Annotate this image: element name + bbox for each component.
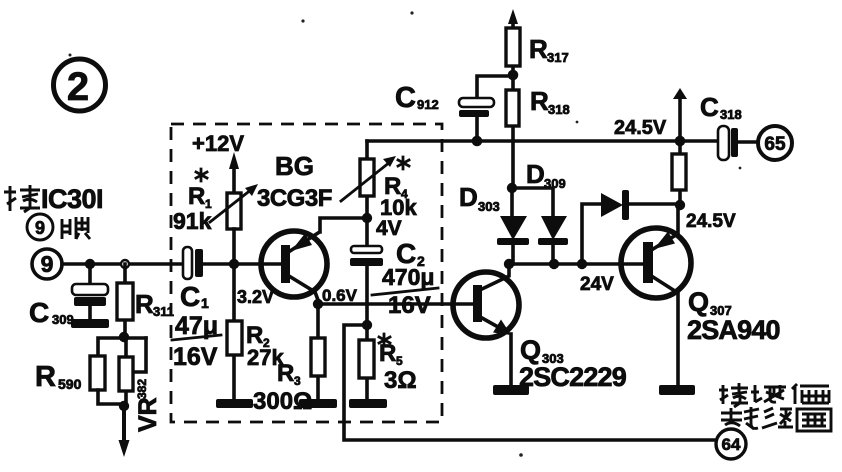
svg-text:4V: 4V: [376, 217, 402, 240]
ground R5: [349, 399, 387, 408]
svg-text:9: 9: [41, 251, 54, 277]
collector lead down-right: [289, 276, 318, 304]
svg-text:65: 65: [764, 134, 786, 155]
svg-text:16V: 16V: [173, 343, 218, 371]
label 接IC301: [4, 184, 103, 214]
wire diode branch up: [582, 204, 601, 264]
node at C309: [85, 259, 95, 269]
svg-text:91k: 91k: [173, 208, 212, 234]
svg-text:C: C: [700, 92, 719, 122]
svg-text:D: D: [459, 182, 478, 212]
node R311 bottom: [119, 332, 129, 342]
svg-text:590: 590: [58, 376, 82, 392]
wire parallel bottom: [98, 390, 124, 404]
svg-text:318: 318: [548, 102, 570, 117]
svg-text:R: R: [188, 183, 205, 210]
svg-text:R: R: [379, 340, 396, 367]
node BG collector: [313, 299, 323, 309]
node rail/C318: [675, 136, 686, 147]
label R4 10k 4V: [376, 173, 417, 240]
label 接场偏 (to field deflection) row1: [719, 383, 829, 407]
capacitor C1: [183, 247, 203, 279]
svg-text:R: R: [277, 360, 294, 387]
node diode top: [507, 183, 517, 193]
svg-text:R: R: [529, 34, 548, 64]
resistor R4 (variable): [341, 141, 396, 218]
transistor BG (PNP 3CG3F): [261, 218, 367, 304]
resistor unlabeled: [672, 141, 686, 205]
svg-text:BG: BG: [275, 151, 314, 181]
transistor Q303 (NPN 2SC2229): [453, 264, 519, 385]
wire parallel top: [98, 338, 146, 356]
label C318: [700, 92, 742, 122]
label R1 91k: [173, 183, 212, 234]
inner dashed box: [171, 124, 442, 422]
ground R3: [299, 399, 337, 408]
resistor R1 (variable): [210, 184, 258, 264]
label Q303 2SC2229: [519, 335, 627, 392]
svg-text:IC30I: IC30I: [41, 184, 103, 214]
label Q307 2SA940: [687, 287, 780, 345]
svg-text:3: 3: [294, 374, 301, 388]
svg-text:2SA940: 2SA940: [687, 315, 780, 345]
svg-text:VR: VR: [134, 397, 162, 432]
ground C309: [71, 319, 109, 328]
node C2/R5: [362, 320, 372, 330]
svg-text:Q: Q: [520, 335, 541, 365]
emitter lead up-right: [290, 218, 367, 251]
label C912: [395, 82, 439, 114]
main 24.5V rail: [367, 139, 680, 143]
supply +12V arrow: [192, 131, 244, 193]
label R3 300ohm: [253, 360, 312, 415]
resistor R2: [227, 264, 242, 399]
label D303: [459, 182, 500, 214]
label R2 27k: [246, 322, 284, 370]
svg-text:470μ: 470μ: [382, 264, 434, 290]
svg-text:R: R: [35, 361, 56, 393]
svg-text:0.6V: 0.6V: [322, 286, 358, 305]
svg-text:912: 912: [417, 97, 439, 112]
collector lead: [482, 264, 509, 289]
label C2 470u/16V: [372, 238, 438, 319]
ground R2: [216, 399, 253, 408]
asterisk R5: [379, 334, 390, 346]
node Q303 collector: [504, 259, 514, 269]
resistor R590: [90, 356, 105, 390]
wire 0.6V line to Q303 base: [318, 302, 474, 306]
svg-text:303: 303: [478, 199, 500, 214]
svg-text:D: D: [526, 159, 545, 189]
ground Q307: [659, 385, 695, 395]
node D309 bottom: [549, 259, 559, 269]
label D309: [526, 159, 566, 191]
svg-text:1: 1: [201, 295, 209, 311]
resistor R318: [506, 75, 519, 188]
svg-text:2: 2: [67, 65, 89, 109]
svg-text:2SC2229: 2SC2229: [519, 362, 627, 392]
node VR bottom: [119, 401, 129, 411]
svg-text:5: 5: [396, 354, 403, 368]
diode D (boost): [601, 190, 680, 220]
label R5 3ohm: [379, 340, 417, 394]
label R311: [135, 289, 174, 319]
potentiometer VR382: [119, 338, 146, 406]
wire 24V node line: [509, 262, 644, 266]
label VR382 rotated: [134, 379, 162, 432]
wire C1 to BG base: [204, 262, 284, 266]
label R317: [529, 34, 569, 65]
capacitor C318: [680, 126, 757, 160]
svg-text:311: 311: [153, 304, 174, 319]
resistor R3: [311, 304, 325, 399]
label R318: [530, 86, 570, 117]
svg-text:24.5V: 24.5V: [614, 117, 667, 139]
diode D303: [497, 188, 529, 264]
diode D309: [538, 216, 568, 264]
svg-text:317: 317: [547, 50, 569, 65]
wire input from terminal 9 to C1: [62, 262, 183, 266]
transistor Q307 (PNP 2SA940): [621, 205, 691, 385]
svg-text:C: C: [180, 281, 200, 312]
svg-text:309: 309: [52, 312, 74, 327]
asterisk R1: [196, 169, 207, 181]
ground Q303: [493, 385, 529, 395]
svg-text:R: R: [530, 86, 549, 116]
svg-text:Q: Q: [688, 287, 709, 317]
svg-text:C: C: [29, 297, 49, 328]
wire to D309: [512, 188, 553, 216]
terminal 65: [758, 126, 792, 160]
label BG 3CG3F: [257, 151, 332, 212]
resistor R311: [117, 264, 133, 338]
terminal 64: [716, 429, 746, 459]
svg-text:3Ω: 3Ω: [384, 367, 417, 394]
emitter lead up with arrow to node: [653, 205, 678, 249]
svg-text:24V: 24V: [580, 274, 614, 295]
svg-text:9: 9: [35, 218, 45, 238]
feedback wire to terminal 64: [344, 325, 716, 440]
node R4/C2 4V: [362, 213, 372, 223]
svg-text:R: R: [135, 289, 154, 319]
stub terminal above rail: [673, 88, 687, 141]
figure number circle 2: [54, 59, 106, 111]
resistor R317: [506, 17, 520, 76]
node R317/R318: [508, 70, 519, 81]
svg-text:64: 64: [722, 435, 741, 454]
capacitor C309: [72, 264, 108, 319]
svg-text:24.5V: 24.5V: [686, 211, 736, 232]
capacitor C912: [459, 76, 511, 141]
arrow down to bias: [119, 406, 130, 457]
scan specks: [69, 11, 742, 456]
terminal 9: [32, 249, 62, 279]
svg-text:309: 309: [544, 176, 566, 191]
svg-text:300Ω: 300Ω: [253, 388, 312, 415]
asterisk R4: [398, 157, 409, 169]
svg-text:16V: 16V: [388, 292, 431, 319]
label R590: [35, 361, 82, 393]
node diode branch: [577, 259, 587, 269]
collector lead down: [653, 277, 678, 385]
svg-text:3CG3F: 3CG3F: [257, 185, 332, 212]
supply arrow R317: [508, 9, 518, 24]
label C1 47u/16V: [172, 281, 221, 371]
capacitor C2: [350, 218, 383, 325]
node hollow at R311: [121, 260, 129, 268]
svg-text:+12V: +12V: [192, 131, 244, 156]
resistor R5: [359, 325, 374, 399]
label C309: [29, 297, 74, 328]
node diode/Q307 emitter: [675, 200, 685, 210]
wiper wire: [134, 338, 146, 372]
label circled-9 脚: [27, 214, 90, 240]
emitter lead with arrow: [482, 318, 507, 332]
svg-text:382: 382: [135, 379, 149, 399]
node C912/rail: [472, 136, 483, 147]
svg-text:318: 318: [720, 107, 742, 122]
svg-text:3.2V: 3.2V: [237, 287, 274, 307]
label 转线圈 row2: [721, 407, 831, 431]
svg-text:C: C: [395, 82, 416, 114]
node R1/R2: [229, 259, 239, 269]
